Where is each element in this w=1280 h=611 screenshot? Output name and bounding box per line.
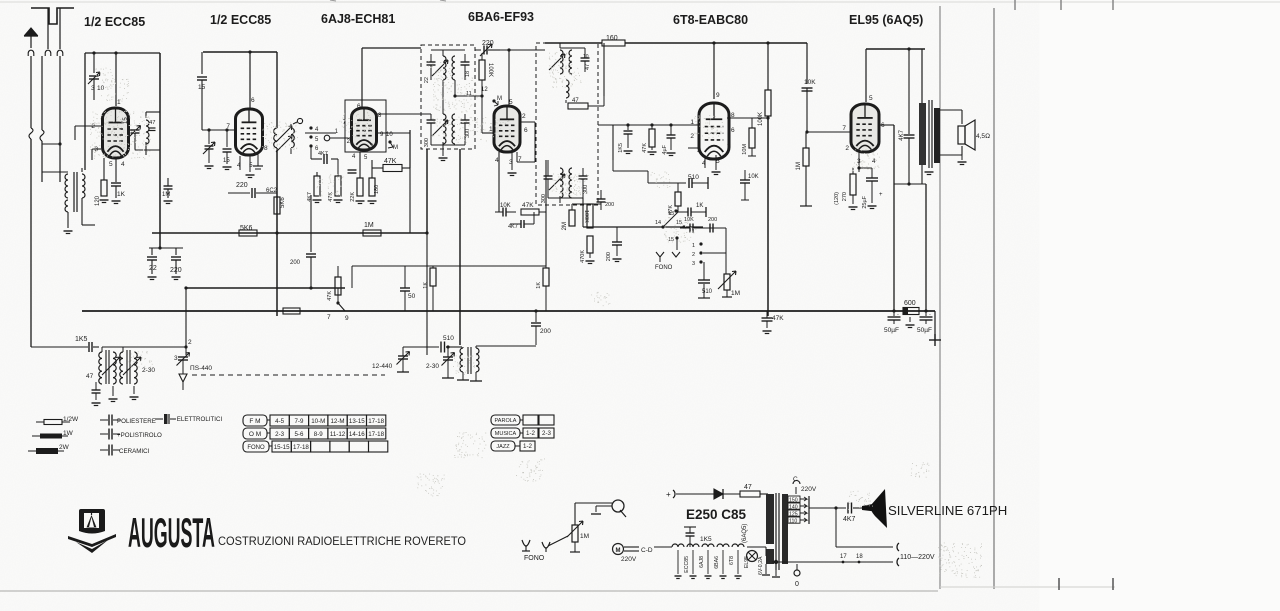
svg-text:2: 2 (522, 113, 526, 120)
svg-text:2: 2 (845, 145, 849, 152)
svg-text:110—220V: 110—220V (900, 554, 935, 561)
svg-text:22: 22 (149, 265, 157, 272)
svg-text:12: 12 (481, 87, 488, 93)
svg-text:200: 200 (540, 328, 551, 335)
svg-text:17-18: 17-18 (293, 444, 309, 451)
svg-text:100K: 100K (758, 112, 764, 126)
svg-text:1K5: 1K5 (618, 143, 624, 153)
svg-text:CERAMICI: CERAMICI (119, 448, 150, 455)
svg-text:1K: 1K (423, 282, 429, 289)
svg-text:200: 200 (290, 260, 301, 266)
svg-text:4-5: 4-5 (275, 418, 285, 425)
svg-text:.: . (897, 310, 899, 317)
svg-text:5K6: 5K6 (240, 225, 253, 232)
svg-text:2-3: 2-3 (542, 430, 552, 437)
svg-text:1K5: 1K5 (75, 336, 88, 343)
svg-text:1M: 1M (162, 192, 170, 198)
svg-text:100K: 100K (487, 63, 493, 77)
svg-text:C-D: C-D (641, 547, 653, 554)
svg-text:510: 510 (702, 289, 713, 295)
svg-text:+: + (879, 192, 883, 198)
svg-text:8: 8 (264, 145, 268, 152)
svg-text:5: 5 (109, 161, 113, 168)
svg-text:22K: 22K (350, 192, 356, 202)
svg-text:- ELETTROLITICI: - ELETTROLITICI (173, 416, 222, 423)
svg-text:4,5Ω: 4,5Ω (976, 133, 990, 140)
svg-text:17-18: 17-18 (368, 418, 384, 425)
svg-text:10: 10 (97, 85, 105, 92)
svg-text:2W: 2W (59, 444, 70, 451)
svg-text:1K5: 1K5 (700, 536, 712, 543)
svg-text:4K7: 4K7 (318, 151, 328, 157)
svg-text:PAROLA: PAROLA (495, 418, 517, 424)
svg-text:5-6: 5-6 (294, 431, 304, 438)
svg-text:220V: 220V (621, 556, 637, 563)
svg-text:1/2W: 1/2W (63, 416, 79, 423)
svg-text:300: 300 (424, 138, 430, 147)
svg-text:18: 18 (465, 71, 471, 77)
svg-text:2-3: 2-3 (275, 431, 285, 438)
svg-text:1M: 1M (580, 533, 589, 540)
svg-text:1-2: 1-2 (526, 430, 536, 437)
svg-text:2: 2 (692, 252, 695, 258)
svg-text:47: 47 (86, 373, 94, 380)
svg-text:FONO: FONO (655, 265, 673, 271)
svg-text:2: 2 (188, 339, 192, 346)
svg-text:5K6: 5K6 (280, 197, 286, 208)
svg-text:1-2: 1-2 (523, 443, 533, 450)
svg-text:12-M: 12-M (330, 418, 344, 425)
svg-text:1M: 1M (796, 162, 802, 170)
svg-text:6C2: 6C2 (266, 188, 278, 194)
svg-text:270: 270 (842, 192, 848, 201)
svg-text:7-9: 7-9 (294, 418, 304, 425)
svg-text:3: 3 (174, 355, 178, 362)
svg-text:6T8-EABC80: 6T8-EABC80 (673, 13, 748, 27)
svg-text:4K7: 4K7 (508, 224, 518, 230)
svg-text:ECC85: ECC85 (684, 556, 690, 573)
svg-text:9: 9 (345, 315, 349, 322)
svg-text:510: 510 (443, 335, 454, 342)
svg-text:6T8: 6T8 (729, 556, 735, 565)
svg-text:4: 4 (121, 161, 125, 168)
svg-text:10: 10 (583, 54, 589, 60)
svg-text:4µF: 4µF (662, 144, 668, 154)
svg-text:5: 5 (869, 95, 873, 102)
svg-text:15: 15 (123, 117, 129, 124)
svg-text:F M: F M (249, 418, 260, 425)
svg-text:2-30: 2-30 (426, 363, 439, 370)
svg-text:MUSICA: MUSICA (495, 431, 517, 437)
svg-text:1: 1 (692, 243, 695, 249)
svg-text:220V: 220V (801, 486, 817, 493)
svg-text:10M: 10M (742, 144, 748, 155)
svg-text:6BA6-EF93: 6BA6-EF93 (468, 10, 534, 24)
svg-text:4K7: 4K7 (843, 516, 856, 523)
svg-text:2-30: 2-30 (142, 367, 155, 374)
svg-text:8-9: 8-9 (314, 431, 324, 438)
svg-text:47K: 47K (384, 158, 397, 165)
svg-text:18: 18 (856, 554, 863, 560)
svg-text:EL95 (6AQ5): EL95 (6AQ5) (849, 13, 923, 27)
svg-text:15-15: 15-15 (274, 444, 290, 451)
svg-text:200: 200 (606, 252, 612, 261)
svg-text:1M: 1M (364, 222, 374, 229)
svg-text:(120): (120) (834, 192, 840, 205)
svg-text:10K: 10K (748, 174, 759, 180)
svg-text:110: 110 (789, 519, 797, 525)
svg-text:+: + (666, 490, 671, 499)
svg-text:JAZZ: JAZZ (496, 444, 510, 450)
svg-text:220: 220 (170, 267, 182, 274)
svg-text:6BA6: 6BA6 (714, 556, 720, 569)
svg-text:15: 15 (676, 220, 682, 226)
svg-text:6: 6 (357, 103, 361, 110)
svg-text:200: 200 (708, 217, 717, 223)
svg-text:6AJ8: 6AJ8 (699, 556, 705, 568)
svg-text:11-12: 11-12 (330, 431, 346, 438)
svg-text:6: 6 (251, 97, 255, 104)
svg-text:FONO: FONO (524, 555, 545, 562)
svg-text:1K: 1K (696, 203, 703, 209)
svg-text:10K: 10K (804, 79, 816, 86)
svg-text:E250 C85: E250 C85 (686, 507, 747, 522)
svg-text:47: 47 (572, 98, 579, 104)
svg-text:(6AQ5): (6AQ5) (742, 524, 748, 543)
svg-text:4K7: 4K7 (307, 192, 313, 202)
svg-text:50µF: 50µF (917, 327, 932, 334)
svg-text:M: M (393, 145, 398, 151)
svg-text:17-18: 17-18 (368, 431, 384, 438)
svg-text:4: 4 (495, 157, 499, 164)
svg-text:470K: 470K (580, 250, 586, 263)
svg-text:13-15: 13-15 (349, 418, 365, 425)
svg-text:7: 7 (842, 125, 846, 132)
svg-text:10-M: 10-M (311, 418, 325, 425)
svg-text:6AJ8-ECH81: 6AJ8-ECH81 (321, 12, 395, 26)
svg-text:200: 200 (605, 202, 614, 208)
svg-text:5: 5 (509, 99, 513, 106)
svg-text:180: 180 (374, 185, 380, 194)
svg-text:47: 47 (585, 64, 591, 70)
svg-text:600: 600 (904, 300, 916, 307)
svg-text:14-16: 14-16 (349, 431, 365, 438)
svg-text:FONO: FONO (247, 445, 265, 451)
svg-text:47: 47 (149, 120, 155, 126)
svg-text:50: 50 (408, 293, 416, 300)
svg-text:0: 0 (795, 581, 799, 588)
svg-text:15: 15 (223, 158, 230, 164)
svg-text:ΠS-440: ΠS-440 (190, 365, 212, 372)
svg-text:220: 220 (236, 182, 248, 189)
svg-text:O M: O M (249, 431, 261, 438)
svg-text:6V-0,2A: 6V-0,2A (758, 556, 764, 575)
svg-text:+POLISTIROLO: +POLISTIROLO (117, 432, 162, 439)
svg-text:1W: 1W (63, 430, 74, 437)
svg-text:2: 2 (690, 133, 694, 140)
svg-text:6: 6 (524, 127, 528, 134)
svg-text:1/2 ECC85: 1/2 ECC85 (210, 13, 271, 27)
svg-text:7: 7 (327, 314, 331, 321)
svg-text:COSTRUZIONI RADIOELETTRICHE RO: COSTRUZIONI RADIOELETTRICHE ROVERETO (218, 536, 466, 548)
svg-text:47K: 47K (642, 143, 648, 153)
svg-text:POLIESTERE: POLIESTERE (117, 418, 156, 425)
svg-text:47K: 47K (522, 202, 534, 209)
svg-text:14: 14 (655, 220, 661, 226)
svg-text:2M: 2M (562, 222, 568, 230)
svg-text:.: . (929, 310, 931, 317)
svg-text:6: 6 (731, 127, 735, 134)
svg-text:160: 160 (606, 35, 618, 42)
svg-text:47K: 47K (327, 291, 333, 301)
svg-text:17: 17 (840, 554, 847, 560)
svg-text:AUGUSTA: AUGUSTA (128, 509, 215, 556)
svg-text:22: 22 (424, 77, 430, 83)
svg-text:1K: 1K (536, 282, 542, 289)
svg-text:3: 3 (692, 261, 695, 267)
svg-text:100K: 100K (583, 210, 589, 223)
svg-text:25µF: 25µF (862, 195, 868, 208)
svg-text:5: 5 (716, 158, 720, 165)
svg-text:7: 7 (727, 144, 731, 151)
svg-text:1K: 1K (117, 191, 126, 198)
svg-text:M: M (497, 96, 502, 102)
svg-text:1M: 1M (731, 290, 740, 297)
svg-text:M: M (616, 548, 621, 554)
svg-text:12-440: 12-440 (372, 363, 393, 370)
svg-text:50µF: 50µF (884, 327, 899, 334)
svg-text:SILVERLINE 671PH: SILVERLINE 671PH (888, 503, 1007, 518)
svg-text:47K: 47K (772, 315, 784, 322)
svg-text:4K7: 4K7 (899, 129, 905, 140)
svg-text:1/2 ECC85: 1/2 ECC85 (84, 15, 145, 29)
svg-text:47: 47 (744, 484, 752, 491)
svg-text:9: 9 (716, 92, 720, 99)
svg-text:300: 300 (465, 129, 471, 138)
